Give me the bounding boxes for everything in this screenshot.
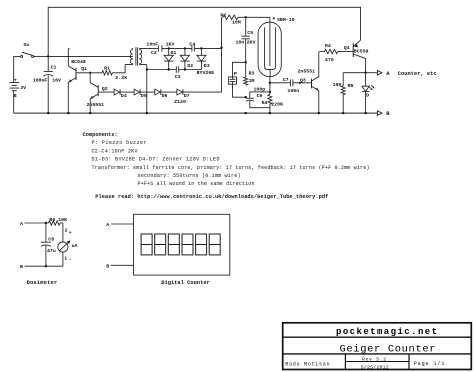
- switch Sw: [14, 55, 21, 57]
- transistor Q3 2n5551: [311, 79, 313, 89]
- svg-text:Q3: Q3: [300, 77, 306, 83]
- junction ground rail / Q3 emitter: [318, 112, 320, 114]
- svg-text:Please read: http://www.centro: Please read: http://www.centronic.co.uk/…: [95, 194, 328, 200]
- svg-text:2: 2: [65, 227, 68, 233]
- svg-text:10nF: 10nF: [146, 41, 158, 47]
- transformer T1: [130, 49, 132, 63]
- svg-text:D5: D5: [141, 93, 147, 99]
- wire Q1 base: [76, 72, 102, 74]
- seven segment digit 1: [141, 234, 152, 255]
- dosimeter node B: [25, 265, 63, 267]
- seven segment digit 2: [155, 234, 166, 255]
- wire Q2 base to D4: [98, 91, 114, 93]
- resistor R3 1M: [245, 62, 247, 77]
- junction D2 top: [184, 47, 186, 49]
- title block frame: [283, 323, 472, 370]
- svg-text:100p: 100p: [254, 86, 266, 92]
- svg-text:100n: 100n: [287, 88, 299, 94]
- seven segment digit 6: [209, 234, 220, 255]
- svg-text:pocketmagic.net: pocketmagic.net: [336, 327, 437, 337]
- svg-text:uA: uA: [72, 243, 78, 249]
- svg-text:P+F+S all wound in the same di: P+F+S all wound in the same direction: [138, 181, 255, 187]
- zener D4: [114, 89, 120, 95]
- svg-text:Q4: Q4: [344, 45, 350, 51]
- junction ground rail / Q2 emitter: [89, 112, 91, 114]
- svg-text:10n: 10n: [236, 39, 245, 45]
- junction C5 tap: [245, 16, 247, 18]
- junction ground rail / LED: [364, 112, 366, 114]
- svg-text:Q1: Q1: [81, 66, 87, 72]
- svg-text:BYV26E: BYV26E: [197, 70, 215, 76]
- wire top rail V+ loop: [48, 7, 360, 56]
- capacitor C4: [192, 45, 194, 51]
- svg-text:Page 1/1: Page 1/1: [414, 361, 445, 367]
- svg-text:SBM-19: SBM-19: [277, 17, 295, 23]
- junction D1 bottom: [168, 68, 170, 70]
- junction ground rail / transformer secondary: [146, 112, 148, 114]
- junction secondary bottom: [146, 68, 148, 70]
- svg-text:+: +: [69, 231, 72, 236]
- svg-text:D: D: [366, 93, 369, 99]
- svg-text:Radu Motisan: Radu Motisan: [285, 361, 329, 367]
- svg-text:100uF: 100uF: [33, 77, 48, 83]
- svg-text:A: A: [20, 221, 23, 227]
- svg-text:D4: D4: [121, 93, 127, 99]
- diode D1 BYV26E: [168, 48, 170, 55]
- junction ground rail / C1: [47, 112, 49, 114]
- capacitor C5 10n 2KV: [245, 17, 247, 36]
- output B: [377, 111, 382, 115]
- LED D: [365, 73, 367, 87]
- svg-text:220K: 220K: [271, 101, 283, 107]
- svg-text:2KV: 2KV: [247, 39, 256, 45]
- svg-text:10K: 10K: [333, 82, 342, 88]
- svg-text:5/25/2012: 5/25/2012: [361, 365, 389, 371]
- svg-text:+: +: [14, 79, 17, 84]
- svg-text:10M: 10M: [232, 20, 241, 26]
- capacitor C1 100uF 16V: [47, 56, 49, 71]
- svg-text:Geiger Counter: Geiger Counter: [340, 343, 436, 355]
- svg-text:3V: 3V: [20, 85, 26, 91]
- svg-text:C2: C2: [151, 50, 157, 56]
- svg-text:2n5551: 2n5551: [298, 69, 316, 75]
- svg-text:16V: 16V: [52, 77, 61, 83]
- junction V+ / C1: [47, 55, 49, 57]
- transistor Q1 BC548: [75, 68, 77, 80]
- meter uA: [58, 242, 68, 252]
- svg-text:Transformer: small ferrite cor: Transformer: small ferrite core, primary…: [92, 165, 370, 171]
- svg-text:2.2K: 2.2K: [115, 75, 127, 81]
- svg-text:Counter, etc: Counter, etc: [398, 71, 437, 77]
- digital counter box: [134, 214, 230, 275]
- svg-text:C3: C3: [175, 74, 181, 80]
- svg-text:Digital Counter: Digital Counter: [161, 280, 210, 286]
- svg-text:R4: R4: [325, 43, 331, 49]
- svg-text:R6 10K: R6 10K: [49, 217, 67, 223]
- svg-text:C8: C8: [48, 237, 54, 243]
- transistor Q4 BC558: [352, 43, 354, 57]
- svg-text:-: -: [69, 258, 72, 263]
- ground rail: [14, 112, 378, 114]
- resistor R4 470: [320, 51, 325, 53]
- svg-text:R5: R5: [348, 83, 354, 89]
- svg-text:470: 470: [325, 57, 334, 63]
- resistor R6 10K: [49, 221, 61, 225]
- wire V+ to transformer center tap: [48, 55, 133, 57]
- svg-text:C6: C6: [257, 93, 263, 99]
- junction ground rail / Q1 emitter: [67, 112, 69, 114]
- svg-text:A: A: [106, 222, 109, 228]
- battery 3V: [10, 83, 20, 114]
- resistor R2 10M: [222, 17, 223, 47]
- junction ground rail / R3: [245, 112, 247, 114]
- svg-text:1KV: 1KV: [166, 41, 175, 47]
- capacitor C8 47u: [45, 223, 47, 242]
- svg-text:Components:: Components:: [83, 132, 118, 138]
- svg-text:Rev 3.2: Rev 3.2: [362, 357, 386, 363]
- svg-text:Sw: Sw: [23, 42, 29, 48]
- wire tube cathode down: [269, 77, 271, 113]
- svg-text:C1: C1: [51, 64, 57, 70]
- capacitor C2 10nF 1KV: [158, 45, 162, 51]
- svg-text:D1-D3: BYV26E D4-D7: Zenner 1: D1-D3: BYV26E D4-D7: Zenner 120V D:LED: [92, 157, 220, 163]
- svg-text:BC558: BC558: [354, 49, 369, 55]
- svg-text:R4: R4: [262, 100, 268, 106]
- svg-text:R3: R3: [249, 70, 255, 76]
- junction D2 bottom: [184, 68, 186, 70]
- capacitor C7 100n: [270, 82, 291, 84]
- junction D1 top: [168, 47, 170, 49]
- svg-text:B: B: [20, 264, 23, 270]
- seven segment digit 4: [182, 234, 193, 255]
- svg-text:R1: R1: [104, 66, 110, 72]
- svg-text:1M: 1M: [249, 78, 255, 84]
- svg-text:B: B: [106, 263, 109, 269]
- seven segment digit 5: [196, 234, 207, 255]
- svg-text:C2-C4:10nF 2KV: C2-C4:10nF 2KV: [92, 148, 139, 154]
- svg-text:Dosimeter: Dosimeter: [27, 280, 58, 286]
- svg-text:R2: R2: [220, 12, 226, 18]
- svg-text:C5: C5: [247, 30, 253, 36]
- wire D7 to HV node: [182, 48, 221, 92]
- svg-text:Z120: Z120: [174, 99, 186, 105]
- svg-text:D1: D1: [171, 50, 177, 56]
- geiger tube SBM-19: [258, 22, 281, 77]
- junction HV node: [220, 47, 222, 49]
- junction Q1 base / Q2 collector: [89, 72, 91, 74]
- zener D6: [155, 89, 161, 95]
- svg-text:P: Piezzo buzzer: P: Piezzo buzzer: [92, 140, 147, 146]
- svg-text:C7: C7: [283, 77, 289, 83]
- transistor Q2 2n5551: [97, 85, 99, 96]
- zener D5: [134, 89, 140, 95]
- svg-text:BC548: BC548: [71, 59, 86, 65]
- svg-text:C4: C4: [189, 41, 195, 47]
- svg-text:D2: D2: [187, 63, 193, 69]
- resistor R1 2.2K: [102, 71, 113, 75]
- svg-text:D3: D3: [204, 63, 210, 69]
- svg-text:P: P: [234, 71, 237, 77]
- junction D3 top: [200, 47, 202, 49]
- diode D3: [200, 48, 202, 55]
- svg-text:Q2: Q2: [102, 86, 108, 92]
- capacitor C6 100p + resistor R4 220K: [269, 91, 271, 93]
- svg-text:D6: D6: [162, 93, 168, 99]
- junction tube output: [269, 82, 271, 84]
- wire battery to switch: [13, 56, 15, 82]
- junction ground rail / R4: [269, 112, 271, 114]
- output A Counter: [364, 72, 366, 74]
- wire multiplier mid rail + capacitor C3: [147, 69, 202, 71]
- svg-text:D7: D7: [184, 93, 190, 99]
- svg-text:1: 1: [64, 255, 67, 261]
- piezo P branch: [245, 61, 247, 63]
- svg-text:47u: 47u: [47, 248, 56, 254]
- junction ground rail / R5: [342, 112, 344, 114]
- zener D7 Z120: [177, 89, 183, 95]
- svg-text:secondary: 550turns (0.1mm wir: secondary: 550turns (0.1mm wire): [138, 173, 241, 179]
- resistor R5 10K: [343, 72, 365, 74]
- seven segment digit 3: [168, 234, 179, 255]
- diode D2: [184, 48, 186, 55]
- svg-text:B: B: [14, 93, 17, 99]
- svg-text:2n5551: 2n5551: [87, 102, 105, 108]
